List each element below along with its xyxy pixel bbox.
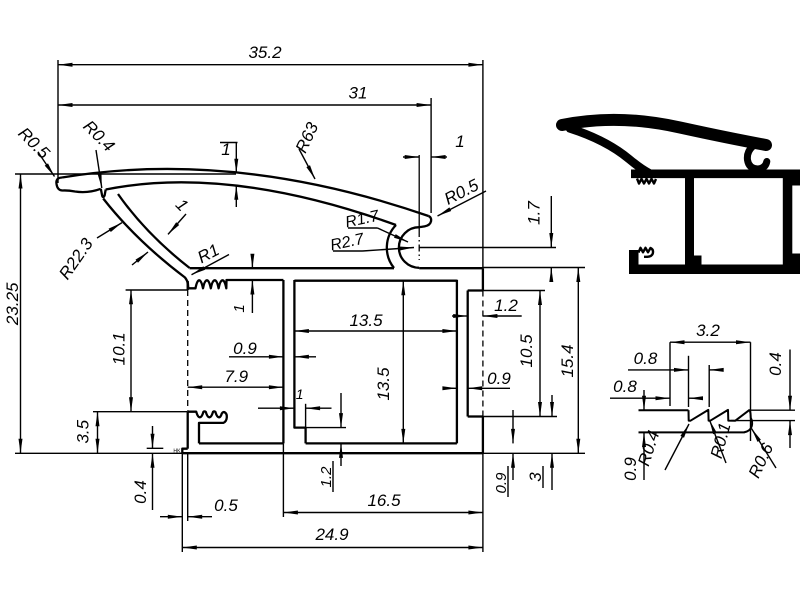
svg-text:0.9: 0.9 <box>233 339 257 358</box>
detail leader R0.1 <box>707 420 735 463</box>
wing left tip bulb R0.5 <box>56 178 100 193</box>
dimension 23.25 <box>3 174 236 453</box>
dimension 0.9 bottom plate <box>493 410 515 497</box>
central pocket right wall <box>456 280 458 444</box>
silhouette foot <box>629 248 653 267</box>
silhouette bottom plate <box>629 264 800 274</box>
right groove top face <box>468 289 483 291</box>
right groove bottom face <box>468 415 483 417</box>
svg-text:0.9: 0.9 <box>487 369 511 388</box>
detail foot top face <box>639 409 689 411</box>
rib inner face <box>118 194 190 268</box>
svg-text:1.7: 1.7 <box>525 201 544 225</box>
svg-text:15.4: 15.4 <box>558 344 577 377</box>
leader R1.7 <box>344 208 408 242</box>
wing underside notch R0.4 <box>101 189 106 197</box>
svg-text:23.25: 23.25 <box>3 282 22 326</box>
silhouette hook <box>747 147 766 170</box>
detail nose R0.6 <box>744 410 752 433</box>
hook outer arc R2.7 <box>387 225 396 268</box>
bottom plate left tip <box>182 449 187 454</box>
dimension 35.2 <box>58 43 483 268</box>
dimension 1 wing skin <box>220 140 238 207</box>
silhouette wall A <box>690 174 702 268</box>
right wall outer face <box>482 268 484 453</box>
silhouette rib <box>570 129 649 174</box>
dimension 1.7 <box>419 196 585 282</box>
svg-text:1: 1 <box>296 386 304 402</box>
hook centerline <box>418 155 420 260</box>
silhouette wing <box>562 120 766 145</box>
detail sawtooth serration <box>689 410 750 421</box>
leader R2.7 <box>329 231 414 255</box>
dimension 0.9 wall A <box>229 339 316 359</box>
svg-text:0.4: 0.4 <box>766 352 785 376</box>
flange underside serration <box>188 280 284 288</box>
svg-text:1.2: 1.2 <box>494 296 518 315</box>
dimension 1 rib <box>132 195 192 265</box>
svg-text:13.5: 13.5 <box>349 311 383 330</box>
bottom plate outer face <box>182 452 483 454</box>
dimension 13.5 vertical <box>374 281 405 444</box>
detail dimension 3.2 <box>670 321 751 441</box>
dimension 15.4 <box>483 268 585 454</box>
dimension 3.5 <box>74 412 188 454</box>
leader R22.3 <box>55 223 122 283</box>
wing inner skin <box>106 182 396 225</box>
wall A right face and bottom step <box>294 280 305 443</box>
leader R63 <box>292 119 323 179</box>
dimension 0.4 <box>131 426 163 510</box>
silhouette right wall with groove <box>783 170 800 274</box>
leader R0.5 right <box>438 175 487 216</box>
hook inner arc R1.7 <box>399 227 419 268</box>
silhouette flange serration <box>637 179 656 184</box>
dimension 16.5 <box>283 443 483 517</box>
central pocket floor <box>306 442 457 444</box>
svg-text:1: 1 <box>221 140 230 159</box>
dashed line left opening plane <box>187 290 189 411</box>
dimension 0.9 groove floor wall <box>442 369 511 390</box>
svg-text:31: 31 <box>349 84 368 103</box>
dimension 1.2 step <box>294 393 346 492</box>
detail dimension 0.9 <box>621 390 646 481</box>
dimension 7.9 <box>188 367 284 389</box>
svg-text:10.5: 10.5 <box>517 334 536 368</box>
svg-text:3: 3 <box>526 472 545 482</box>
svg-text:1: 1 <box>455 132 464 151</box>
detail leader R0.4 <box>634 424 689 470</box>
svg-text:0.4: 0.4 <box>131 480 150 504</box>
wing outer skin R63 curve <box>62 169 429 216</box>
leader R0.5 left tip <box>14 124 54 177</box>
svg-text:7.9: 7.9 <box>224 367 248 386</box>
silhouette flange <box>631 170 800 179</box>
svg-text:16.5: 16.5 <box>367 491 401 510</box>
svg-text:24.9: 24.9 <box>314 525 349 544</box>
dimension 1 wall step <box>258 386 332 427</box>
svg-text:0.9: 0.9 <box>493 472 510 494</box>
detail dimension 0.4 <box>731 350 795 449</box>
dimension 10.1 <box>110 290 188 412</box>
dimension 13.5 horizontal <box>294 311 457 333</box>
svg-text:35.2: 35.2 <box>248 43 282 62</box>
svg-text:10.1: 10.1 <box>110 332 129 365</box>
svg-text:3.5: 3.5 <box>74 419 93 443</box>
wall A left face <box>282 280 284 443</box>
central pocket top face <box>294 280 457 282</box>
leader R1 <box>192 240 230 275</box>
detail dimension 0.8 pitch <box>628 349 724 407</box>
dimension 1 hook mouth <box>403 132 465 159</box>
wing right nose R0.5 and hook mouth <box>419 216 431 227</box>
svg-text:3.2: 3.2 <box>696 321 720 340</box>
bottom plate inner face <box>199 442 283 444</box>
right groove floor <box>467 291 469 417</box>
dimension 0.5 <box>160 453 238 521</box>
foot left face <box>187 412 189 449</box>
svg-text:1.2: 1.2 <box>318 466 335 488</box>
dimension 3 <box>526 395 554 490</box>
detail bottom face <box>639 431 745 433</box>
dimension 10.5 <box>468 291 557 417</box>
tiny stamp text HK <box>173 449 181 455</box>
foot outline with serration <box>188 411 227 443</box>
svg-text:13.5: 13.5 <box>374 367 393 401</box>
dimension 31 <box>58 84 431 214</box>
dimension 1.2 groove wall <box>452 296 522 318</box>
svg-text:0.8: 0.8 <box>634 349 658 368</box>
svg-text:0.8: 0.8 <box>613 377 637 396</box>
dimension 1 flange <box>231 254 254 313</box>
svg-text:0.5: 0.5 <box>214 496 238 515</box>
dimension 24.9 <box>182 453 483 552</box>
flange top face <box>190 267 483 269</box>
detail dimension 0.8 offset <box>610 377 703 400</box>
leader R0.4 notch <box>79 117 118 188</box>
detail leader R0.6 <box>745 429 778 481</box>
svg-text:1: 1 <box>231 304 248 312</box>
rib outer face R22.3 <box>103 199 188 291</box>
